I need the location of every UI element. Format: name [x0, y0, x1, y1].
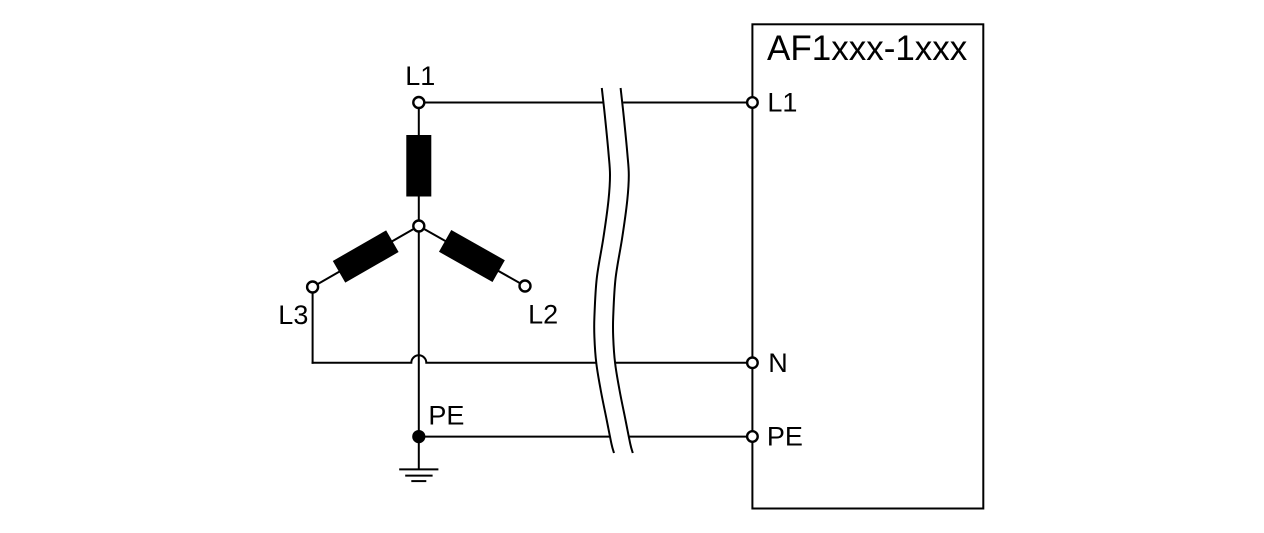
wire N line from L3 corner with hop over star-point wire, to cable break: [312, 355, 597, 363]
wire L1 cable break to device terminal L1: [623, 102, 752, 104]
svg-text:PE: PE: [767, 421, 803, 451]
ground (earth symbol): [399, 469, 438, 481]
winding W3 (diagonal, phase L3): [333, 230, 399, 282]
svg-text:N: N: [768, 348, 788, 378]
wire L3 terminal down to N line: [312, 287, 314, 364]
terminal circle PE (device): [747, 431, 758, 442]
wire winding W3 lead (star node to L3 terminal): [313, 226, 419, 287]
terminal circle L3 (source): [307, 282, 318, 293]
winding W2 (diagonal, phase L2): [439, 230, 505, 282]
cable break mark (right curve): [613, 88, 633, 453]
terminal circle N (device): [747, 358, 758, 369]
wire star node down to PE junction and ground: [418, 226, 420, 469]
wire winding W1 top lead (L1 circle to star node): [418, 103, 420, 227]
terminal circle L1 (device): [747, 97, 758, 108]
terminal circle L1 (source): [413, 97, 424, 108]
wire L1 source terminal to cable break: [419, 102, 604, 104]
svg-text:L1: L1: [767, 88, 797, 118]
wire winding W2 lead (star node to L2 terminal): [419, 226, 525, 286]
winding W1 (vertical, phase L1): [406, 135, 431, 197]
svg-text:PE: PE: [428, 401, 464, 431]
junction dot PE node: [412, 430, 425, 443]
cable break mark (left curve): [594, 88, 614, 453]
svg-text:L2: L2: [528, 300, 558, 330]
terminal circle L2 (source): [520, 281, 531, 292]
wire N cable break to device terminal N: [615, 362, 752, 364]
svg-text:L1: L1: [405, 61, 435, 91]
node: star point circle: [413, 221, 424, 232]
wire PE cable break to device terminal PE: [629, 436, 752, 438]
svg-text:L3: L3: [278, 300, 308, 330]
svg-text:AF1xxx-1xxx: AF1xxx-1xxx: [767, 29, 968, 68]
device box U1 AF1xxx-1xxx: [752, 24, 983, 508]
wire PE junction to cable break: [419, 436, 610, 438]
